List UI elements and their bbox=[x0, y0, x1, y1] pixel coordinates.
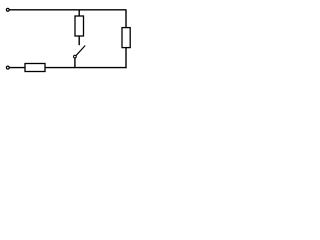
terminal T1 (top left) bbox=[6, 8, 9, 11]
wire stub from R1 to switch contact bbox=[78, 36, 80, 45]
switch S1 blade (open) bbox=[76, 46, 85, 56]
wire top rail bbox=[9, 9, 126, 11]
resistor R3 (bottom horizontal) bbox=[25, 64, 45, 72]
wire bottom rail bbox=[9, 67, 126, 69]
wire right branch lower bbox=[125, 48, 127, 69]
resistor R1 (middle vertical) bbox=[75, 16, 84, 36]
wire stub from switch pivot to bottom rail bbox=[74, 58, 76, 68]
wire stub from top rail to resistor R1 bbox=[78, 10, 80, 16]
resistor R2 (right vertical) bbox=[122, 28, 130, 48]
wire right branch upper bbox=[125, 10, 127, 28]
switch S1 pivot circle bbox=[74, 55, 77, 58]
terminal T2 (bottom left) bbox=[6, 66, 9, 69]
